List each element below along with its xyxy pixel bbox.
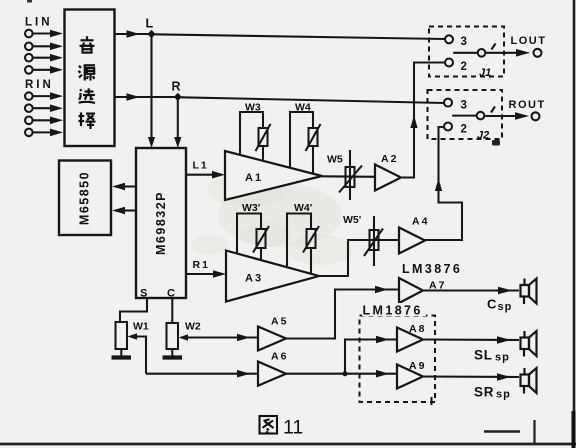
svg-text:3: 3 bbox=[461, 99, 467, 111]
svg-text:J1: J1 bbox=[479, 67, 491, 79]
svg-text:2: 2 bbox=[461, 61, 467, 73]
svg-text:W3: W3 bbox=[245, 102, 261, 114]
svg-text:11: 11 bbox=[283, 417, 303, 439]
svg-text:3: 3 bbox=[461, 36, 467, 48]
svg-text:A1: A1 bbox=[245, 172, 263, 184]
svg-text:M69832P: M69832P bbox=[154, 191, 168, 255]
svg-text:LM3876: LM3876 bbox=[402, 262, 462, 276]
svg-text:W4: W4 bbox=[295, 102, 311, 114]
svg-text:R1: R1 bbox=[193, 259, 210, 271]
svg-text:2: 2 bbox=[461, 124, 467, 136]
svg-text:W2: W2 bbox=[185, 321, 201, 333]
svg-text:sp: sp bbox=[495, 352, 510, 364]
svg-text:A6: A6 bbox=[271, 351, 288, 363]
svg-text:C: C bbox=[487, 297, 497, 312]
svg-text:A8: A8 bbox=[409, 323, 426, 335]
svg-text:L1: L1 bbox=[193, 160, 209, 172]
svg-text:S: S bbox=[140, 288, 147, 300]
svg-text:R: R bbox=[172, 80, 181, 94]
svg-text:SL: SL bbox=[474, 348, 493, 363]
svg-text:L: L bbox=[146, 17, 154, 31]
svg-text:LOUT: LOUT bbox=[511, 35, 547, 47]
svg-text:A5: A5 bbox=[271, 316, 288, 328]
svg-text:W3': W3' bbox=[242, 202, 260, 214]
svg-text:A4: A4 bbox=[412, 216, 429, 228]
svg-text:SR: SR bbox=[474, 385, 494, 400]
svg-text:A2: A2 bbox=[381, 153, 398, 165]
svg-text:J2: J2 bbox=[477, 130, 489, 142]
svg-text:sp: sp bbox=[496, 389, 511, 401]
svg-text:W1: W1 bbox=[133, 321, 149, 333]
svg-text:A9: A9 bbox=[409, 360, 426, 372]
svg-text:ROUT: ROUT bbox=[509, 99, 546, 111]
svg-text:sp: sp bbox=[498, 301, 513, 313]
svg-text:LM1876: LM1876 bbox=[363, 304, 423, 318]
svg-text:W5': W5' bbox=[343, 214, 361, 226]
svg-text:A3: A3 bbox=[245, 273, 263, 285]
svg-text:W4': W4' bbox=[294, 202, 312, 214]
svg-text:C: C bbox=[167, 288, 175, 300]
svg-text:W5: W5 bbox=[327, 154, 343, 166]
svg-text:RIN: RIN bbox=[25, 79, 54, 91]
svg-text:M65850: M65850 bbox=[78, 171, 92, 225]
svg-text:LIN: LIN bbox=[25, 17, 53, 29]
